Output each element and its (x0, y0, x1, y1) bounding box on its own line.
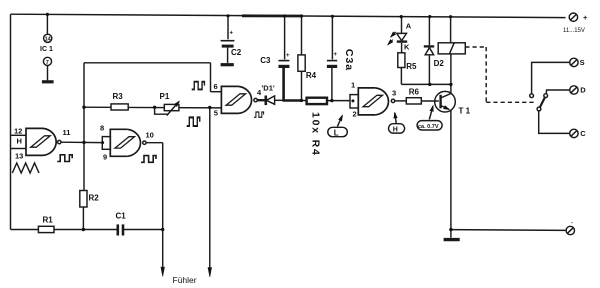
svg-text:R3: R3 (113, 92, 124, 101)
svg-text:D2: D2 (434, 59, 445, 68)
svg-text:P1: P1 (160, 92, 170, 101)
svg-text:10: 10 (146, 131, 154, 140)
svg-text:L: L (334, 129, 339, 138)
svg-text:11...15V: 11...15V (563, 28, 585, 34)
svg-text:'D1': 'D1' (262, 84, 275, 93)
svg-text:8: 8 (100, 124, 104, 133)
svg-text:1: 1 (351, 81, 355, 90)
svg-text:+: + (583, 13, 588, 22)
svg-text:12: 12 (14, 127, 22, 136)
svg-text:Fühler: Fühler (173, 275, 197, 285)
svg-text:C3: C3 (260, 56, 271, 65)
svg-text:C1: C1 (116, 212, 127, 221)
svg-text:D: D (580, 86, 586, 95)
svg-text:5: 5 (214, 109, 218, 118)
svg-text:C3a: C3a (343, 49, 355, 71)
svg-text:7: 7 (46, 60, 49, 66)
svg-text:R5: R5 (406, 62, 417, 71)
svg-text:K: K (404, 42, 410, 51)
svg-text:A: A (406, 21, 412, 30)
svg-text:H: H (17, 137, 22, 146)
svg-text:10x R4: 10x R4 (310, 112, 322, 157)
svg-text:6: 6 (214, 82, 218, 91)
svg-text:ca. 0.7V: ca. 0.7V (418, 124, 439, 130)
svg-text:+: + (230, 30, 234, 36)
svg-text:R2: R2 (89, 194, 100, 203)
svg-text:R6: R6 (409, 88, 420, 97)
svg-text:13: 13 (15, 152, 23, 161)
svg-text:-: - (571, 220, 574, 227)
svg-text:14: 14 (45, 37, 52, 43)
svg-text:2: 2 (353, 110, 357, 119)
svg-text:3: 3 (392, 89, 396, 98)
svg-text:R4: R4 (306, 71, 317, 80)
svg-text:+: + (334, 52, 338, 58)
svg-text:9: 9 (103, 153, 107, 162)
svg-text:R1: R1 (43, 216, 54, 225)
svg-text:H: H (393, 127, 398, 134)
svg-text:C: C (580, 129, 586, 138)
svg-text:S: S (580, 58, 585, 67)
svg-text:T 1: T 1 (459, 107, 471, 116)
svg-text:11: 11 (63, 128, 71, 137)
svg-text:C2: C2 (231, 48, 242, 57)
svg-text:IC 1: IC 1 (40, 46, 53, 53)
svg-text:+: + (286, 53, 290, 59)
